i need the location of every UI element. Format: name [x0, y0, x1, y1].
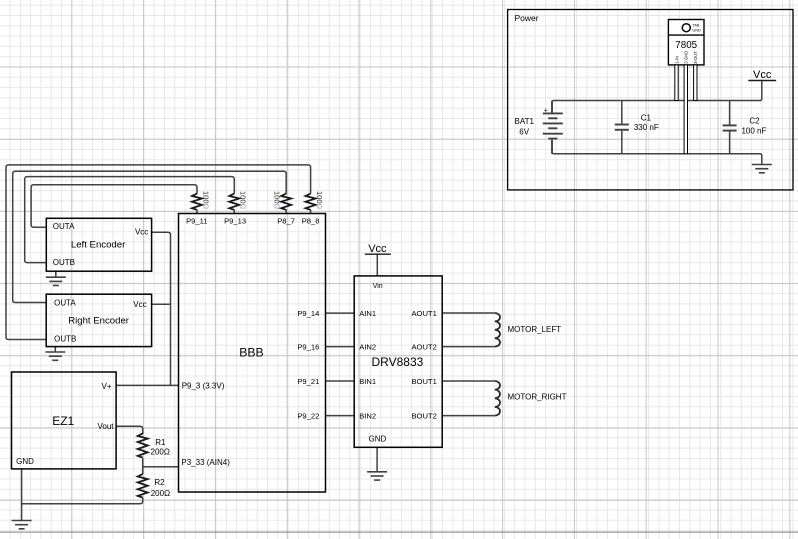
svg-text:Right Encoder: Right Encoder: [68, 316, 130, 327]
svg-text:7805: 7805: [675, 40, 697, 51]
svg-text:TAB: TAB: [692, 23, 700, 27]
svg-text:P9_11: P9_11: [186, 216, 207, 225]
svg-text:EZ1: EZ1: [52, 414, 74, 428]
svg-text:BAT1: BAT1: [514, 117, 534, 126]
svg-text:2-GND: 2-GND: [684, 51, 689, 64]
svg-text:3-OUT: 3-OUT: [693, 51, 698, 64]
svg-text:100Ω: 100Ω: [239, 191, 248, 210]
svg-text:DRV8833: DRV8833: [371, 355, 423, 369]
svg-text:Left Encoder: Left Encoder: [71, 240, 126, 251]
svg-text:OUTB: OUTB: [53, 258, 75, 267]
svg-text:Vcc: Vcc: [135, 227, 148, 236]
svg-text:P8_7: P8_7: [277, 216, 295, 225]
svg-text:Vcc: Vcc: [133, 300, 146, 309]
svg-text:P9_22: P9_22: [297, 412, 319, 421]
svg-text:OUTB: OUTB: [54, 335, 76, 344]
svg-text:C1: C1: [641, 113, 652, 122]
svg-text:BIN1: BIN1: [359, 377, 376, 386]
svg-text:P3_33 (AIN4): P3_33 (AIN4): [181, 458, 230, 467]
svg-text:Vin: Vin: [373, 283, 383, 290]
svg-text:BOUT1: BOUT1: [411, 377, 436, 386]
svg-text:AOUT1: AOUT1: [411, 309, 436, 318]
svg-text:Vcc: Vcc: [753, 69, 772, 81]
svg-text:Power: Power: [515, 13, 539, 23]
svg-text:GND: GND: [692, 28, 701, 32]
svg-text:R1: R1: [155, 438, 166, 447]
svg-text:Vcc: Vcc: [368, 243, 387, 255]
svg-text:P9_3 (3.3V): P9_3 (3.3V): [182, 382, 225, 391]
svg-text:AOUT2: AOUT2: [411, 343, 436, 352]
svg-text:OUTA: OUTA: [54, 298, 76, 307]
svg-text:6V: 6V: [519, 127, 529, 136]
svg-text:200Ω: 200Ω: [151, 448, 170, 457]
svg-text:+: +: [544, 107, 548, 114]
svg-text:C2: C2: [749, 117, 760, 126]
svg-text:P8_8: P8_8: [302, 216, 320, 225]
svg-text:200Ω: 200Ω: [151, 489, 170, 498]
svg-text:P9_14: P9_14: [297, 309, 319, 318]
svg-text:100Ω: 100Ω: [273, 191, 282, 210]
svg-text:100Ω: 100Ω: [201, 191, 210, 210]
svg-text:P9_13: P9_13: [224, 216, 246, 225]
svg-text:100 nF: 100 nF: [741, 127, 766, 136]
svg-text:BIN2: BIN2: [359, 412, 376, 421]
svg-text:GND: GND: [16, 457, 34, 466]
svg-text:P9_21: P9_21: [297, 377, 319, 386]
svg-text:100Ω: 100Ω: [315, 191, 324, 210]
svg-text:V+: V+: [101, 382, 111, 391]
svg-text:1-IN: 1-IN: [674, 56, 679, 64]
svg-text:GND: GND: [369, 435, 387, 444]
svg-text:BBB: BBB: [239, 346, 263, 360]
svg-text:R2: R2: [154, 478, 165, 487]
svg-text:AIN2: AIN2: [359, 343, 376, 352]
svg-text:BOUT2: BOUT2: [411, 412, 436, 421]
svg-text:330 nF: 330 nF: [634, 123, 659, 132]
svg-text:AIN1: AIN1: [359, 309, 376, 318]
svg-text:Vout: Vout: [97, 422, 114, 431]
svg-text:P9_16: P9_16: [297, 343, 319, 352]
svg-text:MOTOR_LEFT: MOTOR_LEFT: [508, 325, 562, 334]
svg-text:MOTOR_RIGHT: MOTOR_RIGHT: [508, 393, 567, 402]
svg-text:OUTA: OUTA: [53, 222, 75, 231]
